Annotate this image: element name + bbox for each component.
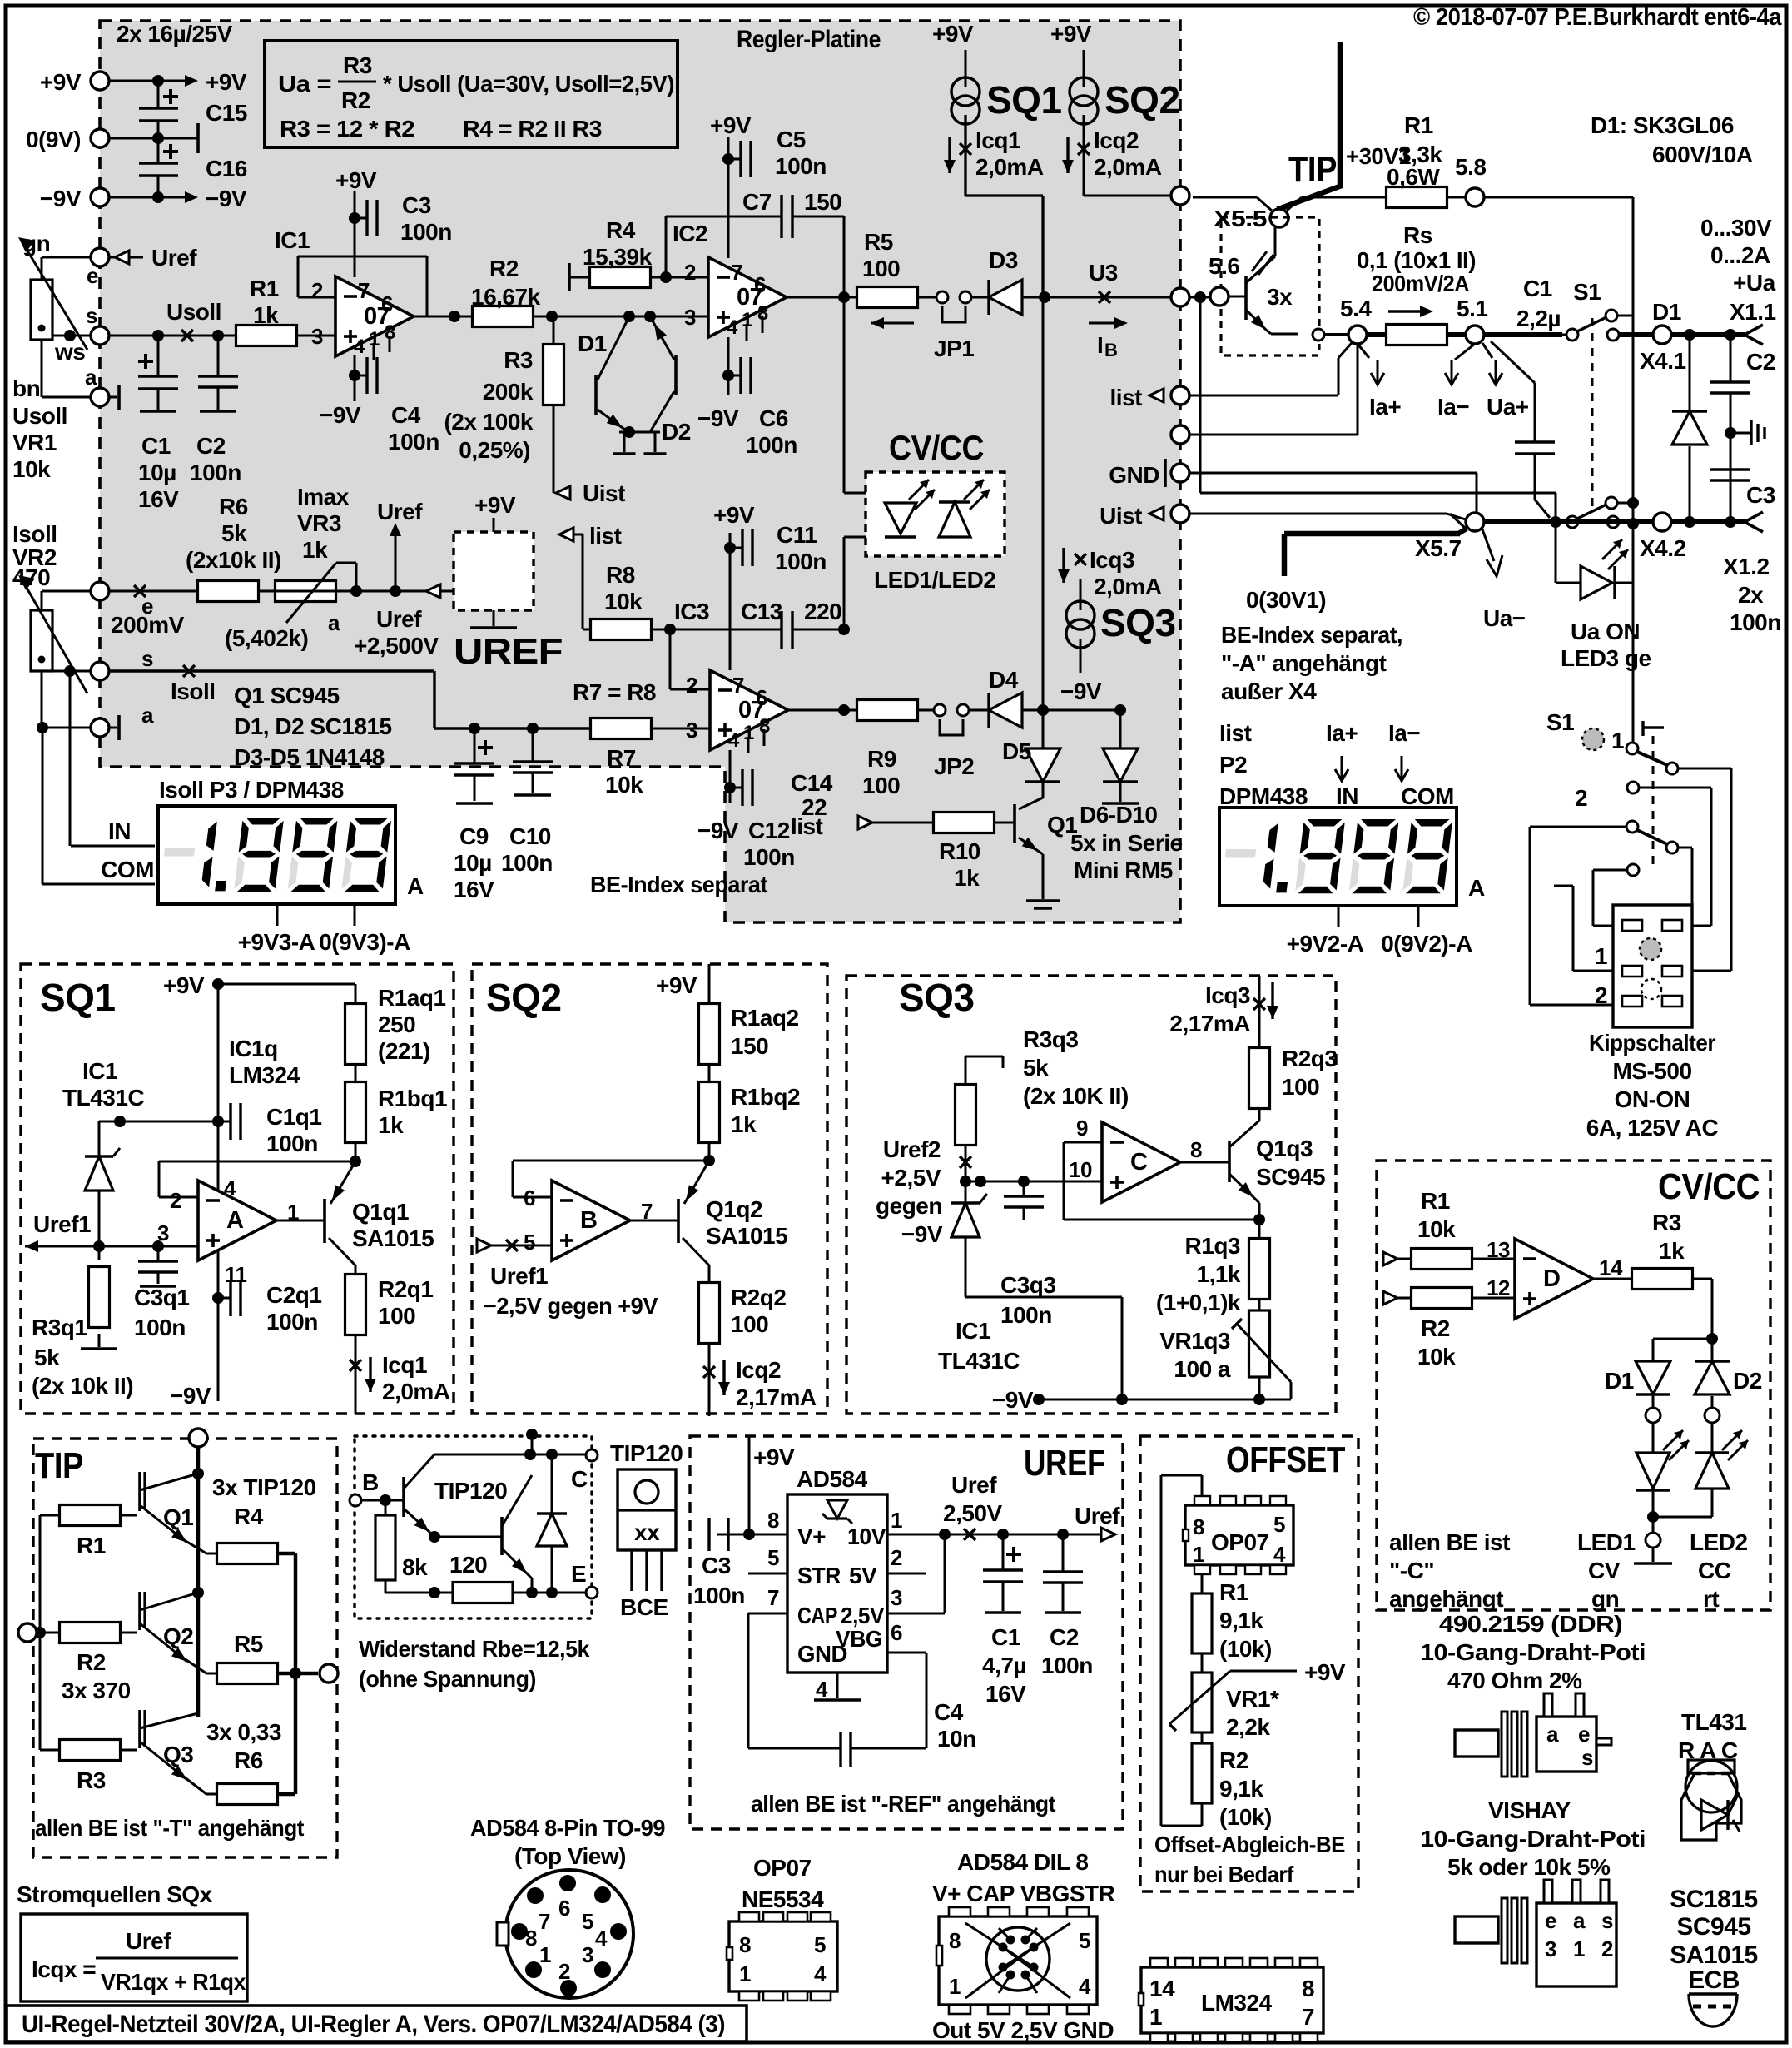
terminal X4.2 [1640, 513, 1686, 561]
svg-text:2: 2 [1595, 982, 1607, 1008]
svg-text:+9V: +9V [710, 112, 752, 138]
svg-text:LM324: LM324 [229, 1062, 300, 1088]
IC3 pin4 wire [724, 750, 736, 803]
transistor Q1 tip [120, 1470, 198, 1547]
pot VR1 offset [1169, 1653, 1346, 1732]
wire +9V [109, 75, 185, 87]
svg-text:6: 6 [756, 685, 767, 710]
capacitor C15 [139, 81, 247, 138]
diode D1 cvcc [1605, 1361, 1670, 1394]
TIP input terminal top [189, 1429, 207, 1717]
terminal tip right [320, 1664, 338, 1683]
wire after S1 [1619, 329, 1745, 341]
svg-text:C3q3: C3q3 [1000, 1272, 1055, 1298]
svg-text:5.6: 5.6 [1209, 253, 1239, 279]
svg-text:ECB: ECB [1688, 1966, 1740, 1994]
svg-text:VR1qx + R1qx: VR1qx + R1qx [101, 1969, 246, 1995]
svg-text:0...30V: 0...30V [1700, 215, 1772, 241]
svg-text:Uref: Uref [151, 245, 197, 271]
svg-text:Uref: Uref [376, 606, 422, 632]
svg-text:C13: C13 [741, 599, 782, 624]
label SQ1 [40, 976, 116, 1019]
resistor R1aq1 [345, 984, 446, 1065]
input arrow 13 [1383, 1252, 1412, 1265]
label R3 texts [444, 347, 533, 463]
svg-text:R2: R2 [489, 256, 519, 281]
label OFFSET [1226, 1439, 1346, 1480]
svg-text:SA1015: SA1015 [1670, 1941, 1757, 1969]
label Uref 250V [943, 1472, 1120, 1529]
IC3 pin labels [686, 673, 770, 752]
label Isoll VR2 470 [12, 521, 57, 590]
svg-text:14: 14 [1599, 1255, 1623, 1280]
svg-text:4: 4 [816, 1677, 828, 1702]
svg-text:IC2: IC2 [673, 221, 707, 246]
svg-text:100n: 100n [400, 219, 452, 245]
svg-text:1: 1 [1573, 1936, 1585, 1961]
label IC1q LM324 [229, 1036, 300, 1088]
svg-text:R1aq1: R1aq1 [378, 985, 446, 1011]
svg-text:a: a [1546, 1722, 1559, 1747]
svg-text:R6: R6 [219, 494, 248, 519]
svg-text:7: 7 [767, 1585, 779, 1610]
svg-text:Icq2: Icq2 [1094, 127, 1139, 153]
svg-text:16V: 16V [985, 1681, 1026, 1707]
opamp C SQ3 [1069, 1116, 1202, 1202]
svg-text:gn: gn [1591, 1586, 1619, 1612]
svg-text:Mini RM5: Mini RM5 [1074, 857, 1173, 883]
svg-text:BE-Index separat: BE-Index separat [590, 872, 767, 897]
resistor R1 3,3k [1387, 112, 1447, 208]
svg-text:250: 250 [378, 1012, 415, 1037]
svg-text:a: a [141, 703, 154, 728]
label 0,6W [1387, 164, 1440, 190]
svg-text:IC1: IC1 [82, 1058, 117, 1084]
S1 row2 wires [1554, 886, 1731, 971]
connector X1.2 [1723, 512, 1781, 635]
node base q1 [350, 1141, 361, 1167]
svg-text:R7 = R8: R7 = R8 [573, 679, 656, 705]
node D4 out [1037, 297, 1049, 716]
transistor Q1q2 [630, 1161, 787, 1265]
svg-text:Ua ON: Ua ON [1571, 619, 1640, 644]
svg-text:(ohne Spannung): (ohne Spannung) [359, 1666, 536, 1692]
pin8 label [767, 1508, 826, 1549]
S1 wire blade1 [1678, 768, 1731, 971]
svg-text:6A, 125V AC: 6A, 125V AC [1586, 1115, 1719, 1141]
label D1 out [1652, 299, 1681, 325]
svg-text:8: 8 [1190, 1137, 1202, 1162]
diode TIP120 [537, 1454, 567, 1593]
svg-text:Kippschalter: Kippschalter [1589, 1030, 1716, 1056]
resistor R1q3 [1249, 1239, 1270, 1311]
Icq3 arrow [1058, 547, 1162, 599]
label BE-Index separat [590, 872, 767, 897]
label OP07 NE5534 [742, 1855, 824, 1912]
UREF box +9V stub [474, 492, 516, 532]
wire 5.8 right [1447, 197, 1633, 583]
svg-text:A: A [226, 1207, 244, 1234]
OP07 dip in offset [1185, 1505, 1293, 1567]
svg-text:nur bei Bedarf: nur bei Bedarf [1154, 1862, 1294, 1887]
svg-text:TL431C: TL431C [938, 1348, 1020, 1374]
svg-text:SA1015: SA1015 [352, 1225, 434, 1251]
svg-text:C10: C10 [509, 823, 551, 849]
svg-text:R1: R1 [1219, 1579, 1248, 1605]
arrow list to R10 [791, 813, 1015, 839]
svg-text:Rs: Rs [1403, 222, 1432, 248]
svg-text:R3 = 12 * R2: R3 = 12 * R2 [280, 116, 414, 142]
capacitor C5 [728, 127, 827, 179]
svg-text:R3q3: R3q3 [1023, 1026, 1078, 1052]
capacitor C3q3 [965, 1176, 1102, 1328]
OFFSET box [1140, 1436, 1358, 1891]
wire Usoll [109, 335, 236, 337]
Icq3 top arrow [1169, 982, 1278, 1036]
S1 dashed link [1591, 318, 1594, 510]
resistor R10 1k [934, 813, 995, 892]
svg-text:3: 3 [1545, 1936, 1556, 1961]
OP07 offset pins [1183, 1496, 1286, 1574]
svg-text:C1: C1 [141, 433, 171, 459]
svg-text:5: 5 [814, 1932, 826, 1957]
label R3 200k [0, 0, 1, 1]
svg-text:xx: xx [634, 1519, 660, 1545]
LED indicator box [866, 472, 1005, 556]
wire wiper s [52, 330, 91, 341]
svg-text:R7: R7 [607, 745, 636, 771]
arrow Ia- down [1437, 344, 1475, 420]
TIP box [33, 1439, 337, 1857]
svg-text:Q1q1: Q1q1 [352, 1199, 409, 1225]
svg-text:D1: D1 [1605, 1368, 1634, 1394]
svg-text:rt: rt [1703, 1586, 1719, 1612]
svg-text:4: 4 [814, 1961, 827, 1986]
svg-text:Uist: Uist [583, 480, 625, 506]
resistor R1bq2 [699, 1063, 801, 1143]
svg-text:150: 150 [804, 189, 841, 215]
svg-text:R10: R10 [939, 838, 980, 864]
label A DPM1 [407, 873, 424, 899]
svg-text:TL431C: TL431C [62, 1085, 144, 1111]
svg-text:−9V: −9V [697, 818, 739, 843]
label AD584 [797, 1466, 868, 1492]
svg-text:100: 100 [731, 1311, 768, 1337]
svg-text:5k: 5k [1023, 1055, 1049, 1081]
svg-text:+2,5V: +2,5V [881, 1165, 941, 1191]
label Kippschalter [1586, 1030, 1719, 1141]
svg-text:D3-D5 1N4148: D3-D5 1N4148 [234, 744, 385, 770]
wire B [361, 1494, 404, 1506]
svg-text:A: A [1468, 875, 1485, 901]
arrow IB [1089, 317, 1128, 360]
capacitor C3 out [1710, 470, 1775, 508]
svg-text:R2q3: R2q3 [1282, 1046, 1337, 1071]
capacitor C13 220 [741, 599, 850, 649]
svg-text:C15: C15 [206, 100, 247, 126]
SQ2 output wire [1084, 115, 1171, 196]
svg-text:0(9V2)-A: 0(9V2)-A [1381, 931, 1472, 957]
svg-text:VR1q3: VR1q3 [1159, 1328, 1230, 1354]
svg-text:U3: U3 [1089, 260, 1118, 286]
svg-text:VR3: VR3 [297, 510, 341, 536]
capacitor C11 [730, 522, 827, 574]
svg-text:100: 100 [862, 773, 900, 798]
label allen BE T [35, 1815, 304, 1841]
Kippschalter dots [1640, 938, 1661, 999]
svg-text:10k: 10k [605, 772, 643, 798]
label TIP main [1288, 149, 1337, 190]
wire R1 rail [40, 1514, 60, 1517]
label +9V above IC1 [335, 167, 377, 193]
wire X4.2 row [1619, 516, 1745, 529]
svg-text:10-Gang-Draht-Poti: 10-Gang-Draht-Poti [1420, 1639, 1646, 1665]
capacitor C3 uref [699, 1518, 787, 1551]
arrow Ua+ down [1482, 343, 1529, 420]
svg-text:IC3: IC3 [674, 599, 709, 624]
pin 10V [847, 1508, 945, 1549]
LED3 [1556, 522, 1633, 599]
svg-text:X4.1: X4.1 [1640, 348, 1686, 374]
svg-text:100n: 100n [134, 1315, 186, 1340]
svg-text:100 a: 100 a [1174, 1356, 1230, 1382]
svg-text:D5: D5 [1002, 738, 1031, 764]
endbar a VR1 [109, 385, 119, 410]
terminal list [1110, 385, 1189, 410]
svg-text:außer X4: außer X4 [1221, 679, 1317, 704]
label TIP120 pkg [610, 1440, 683, 1466]
label BE-Index separat right [1221, 622, 1402, 704]
svg-text:CAP: CAP [797, 1603, 837, 1628]
label +30V1 [1346, 143, 1411, 169]
svg-text:3x TIP120: 3x TIP120 [212, 1474, 316, 1500]
arrow Uist below R3 [556, 480, 625, 506]
formula box [265, 41, 678, 147]
IC2 pin7 wire [710, 112, 752, 258]
svg-text:10k: 10k [1417, 1344, 1456, 1369]
svg-text:Isoll: Isoll [171, 679, 216, 704]
svg-text:C5: C5 [777, 127, 806, 152]
wire Isoll [109, 665, 434, 704]
label S1 detail [1546, 709, 1574, 735]
svg-text:2: 2 [891, 1545, 902, 1570]
svg-text:2x: 2x [1738, 582, 1764, 608]
svg-text:3x: 3x [1267, 284, 1293, 310]
svg-text:Q1q3: Q1q3 [1256, 1136, 1313, 1161]
IC1 feedback loop [298, 256, 427, 316]
svg-text:−9V: −9V [206, 186, 247, 211]
svg-text:SQ2: SQ2 [1104, 78, 1180, 122]
bottom node TIP120 [513, 1587, 586, 1598]
svg-text:2: 2 [311, 278, 323, 303]
svg-text:+9V: +9V [40, 69, 82, 95]
label IC1 TL431C sq3 [938, 1318, 1020, 1374]
Uref up arrow [377, 499, 423, 591]
pin4 GND stub [814, 1673, 861, 1702]
label R7eqR8 [573, 679, 656, 705]
LED2 symbol [939, 480, 990, 537]
label R6 [186, 494, 281, 573]
svg-text:2,17mA: 2,17mA [1169, 1011, 1250, 1036]
resistor R6 5k [198, 581, 259, 602]
label D1 SK3GL06 [1591, 112, 1753, 167]
arrow Ia+ down [1358, 344, 1401, 420]
resistor R2 cvcc [1412, 1275, 1516, 1369]
svg-text:Offset-Abgleich-BE: Offset-Abgleich-BE [1154, 1832, 1345, 1857]
capacitor C10 100n [501, 723, 553, 876]
label VR1q3 [1159, 1328, 1231, 1382]
svg-text:−9V: −9V [901, 1221, 943, 1247]
AD584 DIL8 package [936, 1907, 1097, 2014]
svg-text:200mV/2A: 200mV/2A [1372, 271, 1469, 296]
wire gn-e [42, 257, 91, 280]
wire e-R6 [109, 585, 198, 638]
svg-text:8: 8 [1193, 1514, 1204, 1539]
terminal tip left [18, 1623, 60, 1642]
svg-text:A: A [407, 873, 424, 899]
svg-text:10µ: 10µ [138, 460, 176, 485]
label ws [54, 339, 85, 365]
resistor R1 offset [1192, 1574, 1272, 1662]
capacitor C14 [697, 769, 833, 870]
wire -9V [109, 191, 185, 203]
DPM1 digits [160, 818, 392, 892]
svg-text:10-Gang-Draht-Poti: 10-Gang-Draht-Poti [1420, 1826, 1646, 1852]
svg-text:100n: 100n [775, 153, 827, 179]
svg-text:Ia−: Ia− [1388, 720, 1420, 746]
svg-text:5x in Serie: 5x in Serie [1070, 830, 1183, 856]
svg-text:R2: R2 [1219, 1747, 1248, 1773]
svg-text:14: 14 [1149, 1976, 1175, 2001]
Regler-Platine gray area [100, 21, 1180, 922]
label LED2 CC rt [1690, 1529, 1748, 1612]
transistor Q3 tip [120, 1710, 198, 1784]
svg-text:16,67k: 16,67k [471, 284, 541, 310]
IC1 pin7 wire [349, 191, 360, 277]
svg-text:STR: STR [797, 1563, 841, 1588]
svg-text:D2: D2 [662, 419, 691, 445]
svg-text:5V: 5V [849, 1563, 877, 1588]
label +9V uref [743, 1436, 795, 1540]
svg-text:Uref2: Uref2 [883, 1136, 941, 1162]
resistor R6 tip [206, 1719, 295, 1805]
wire IN from VR2 [69, 671, 72, 846]
wire C13 up to LED box [844, 537, 866, 629]
resistor R2 16,67k [471, 256, 541, 327]
svg-text:1: 1 [1193, 1542, 1204, 1567]
svg-text:7: 7 [1302, 2004, 1314, 2030]
svg-text:5k: 5k [221, 520, 247, 546]
svg-text:2,0mA: 2,0mA [1094, 574, 1162, 599]
terminal 5.4 [1340, 296, 1372, 344]
R3q3 top stub [965, 1056, 1003, 1084]
TIP120 T2 [429, 1469, 532, 1593]
Uref1 input SQ2 [477, 1239, 658, 1319]
svg-text:AD584 DIL 8: AD584 DIL 8 [957, 1849, 1088, 1875]
wire VR3-node [259, 585, 454, 597]
svg-text:4,7µ: 4,7µ [982, 1653, 1026, 1678]
label Widerstand Rbe [359, 1636, 590, 1692]
pin5 STR [748, 1545, 841, 1588]
svg-text:2,0mA: 2,0mA [1094, 154, 1162, 180]
node Usoll [152, 299, 224, 341]
svg-text:Isoll: Isoll [12, 521, 57, 547]
transistor D2 [649, 316, 676, 432]
svg-text:(2x10k II): (2x10k II) [186, 547, 281, 573]
wire 0(9V) [109, 123, 198, 153]
svg-text:Uref: Uref [1075, 1503, 1120, 1529]
terminal X4.1 [1640, 326, 1686, 374]
label COM DPM1 [42, 857, 155, 884]
svg-text:list: list [791, 813, 823, 839]
svg-text:8: 8 [949, 1928, 961, 1953]
transistor D1 [596, 316, 629, 432]
Kippschalter pins [1622, 920, 1682, 1007]
IC1 pin1/8 stubs [374, 336, 390, 360]
svg-text:5: 5 [1273, 1512, 1285, 1537]
DPM1 pins [238, 904, 410, 955]
chassis ground [1730, 420, 1765, 445]
svg-text:−9V: −9V [40, 186, 82, 211]
label allen BE REF [751, 1791, 1055, 1817]
Kippschalter body [1595, 905, 1692, 1027]
svg-text:1k: 1k [731, 1111, 757, 1137]
svg-text:C12: C12 [748, 818, 790, 843]
arrow +9V out [185, 69, 247, 95]
wire TL431-C1q1 [120, 1121, 218, 1123]
svg-text:CV/CC: CV/CC [889, 428, 984, 467]
switch S1 upper [1562, 279, 1633, 341]
svg-text:E: E [571, 1561, 586, 1587]
capacitor C1 uref [982, 1534, 1026, 1707]
terminal 5.6 [1209, 253, 1239, 306]
S1 pole1 and blade [1626, 743, 1678, 774]
diode D4 [969, 667, 1043, 728]
svg-text:D1: D1 [1652, 299, 1681, 325]
svg-text:−9V: −9V [992, 1387, 1034, 1413]
connector X1.1 [1745, 325, 1763, 345]
capacitor C9 10u [454, 723, 494, 902]
svg-text:JP2: JP2 [934, 753, 974, 779]
svg-text:R4: R4 [606, 217, 636, 243]
poti 490.2159 drawing [1455, 1693, 1611, 1777]
terminal GND [1109, 459, 1189, 488]
svg-text:(10k): (10k) [1219, 1804, 1272, 1830]
svg-text:s: s [1601, 1908, 1613, 1933]
resistor R1 cvcc [1412, 1188, 1516, 1270]
svg-text:C1: C1 [1523, 276, 1552, 301]
svg-text:TIP120: TIP120 [610, 1440, 683, 1466]
svg-text:100: 100 [1282, 1074, 1319, 1100]
svg-text:X5.7: X5.7 [1415, 535, 1462, 561]
svg-text:2,0mA: 2,0mA [382, 1379, 450, 1404]
S1 gray dot 1 [1582, 728, 1624, 753]
terminal 5.1 [1457, 296, 1487, 344]
svg-text:9,1k: 9,1k [1219, 1776, 1263, 1802]
Icq2 arrow [1062, 127, 1162, 180]
svg-text:3x 370: 3x 370 [62, 1678, 131, 1703]
svg-text:Ia+: Ia+ [1326, 720, 1358, 746]
IC2 pin labels [684, 260, 768, 339]
svg-text:TL431: TL431 [1681, 1709, 1746, 1735]
label bn [12, 375, 40, 401]
label IC1 TL431C sq1 [62, 1058, 144, 1111]
S1 contact 2 [1575, 782, 1711, 926]
TIP120 package [618, 1469, 676, 1550]
label UREF box [1024, 1443, 1105, 1484]
left rail tip [34, 1515, 46, 1750]
svg-text:3x 0,33: 3x 0,33 [206, 1719, 281, 1745]
